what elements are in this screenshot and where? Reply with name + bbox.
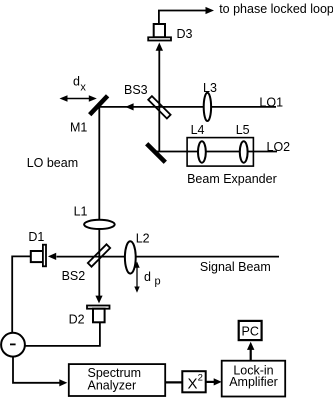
wire spectrum analyzer to squarer	[165, 381, 182, 383]
beam LO1 (right of BS3)	[159, 106, 276, 108]
subtractor node (-)	[1, 333, 25, 357]
dp double arrow	[134, 262, 139, 293]
detector D3	[148, 24, 171, 41]
wire subtractor to spectrum analyzer	[13, 357, 60, 383]
svg-text:M1: M1	[70, 121, 87, 135]
wire D1 to subtractor	[12, 256, 31, 332]
wire lock-in amplifier to PC	[250, 349, 252, 361]
svg-text:x: x	[80, 81, 86, 93]
arrowhead toward M1	[125, 103, 133, 110]
mirror M2 (unlabeled, LO2 fold mirror)	[147, 144, 166, 163]
spectrum analyzer box	[69, 364, 165, 396]
svg-text:d: d	[73, 75, 80, 89]
svg-text:Signal Beam: Signal Beam	[200, 260, 271, 274]
arrowhead into D3	[156, 43, 163, 51]
dx double arrow	[60, 95, 97, 102]
arrowhead into lock-in amplifier	[214, 378, 222, 385]
beam LO2	[156, 151, 277, 153]
lens L2	[125, 241, 136, 273]
beam BS3 to D3 (vertical) and BS3 down to mirror	[158, 50, 160, 152]
svg-text:L1: L1	[74, 205, 88, 219]
beam BS3 to M1	[100, 106, 160, 108]
mirror M1	[90, 96, 108, 115]
detector D1	[31, 245, 46, 267]
arrowhead into D1	[48, 253, 56, 260]
PC box	[239, 321, 262, 340]
lens L1	[84, 220, 115, 229]
svg-text:L4: L4	[191, 123, 205, 137]
svg-text:LO1: LO1	[259, 96, 283, 110]
svg-text:p: p	[155, 276, 161, 288]
svg-text:BS2: BS2	[62, 269, 86, 283]
lens L4	[198, 141, 206, 162]
beam splitter BS2	[88, 244, 110, 266]
lens L5	[240, 141, 248, 162]
svg-text:L2: L2	[136, 232, 150, 246]
detector D2	[87, 306, 110, 323]
svg-text:L3: L3	[203, 81, 217, 95]
arrowhead into PC	[247, 342, 254, 350]
svg-text:X: X	[188, 375, 198, 392]
wire to phase locked loop	[159, 11, 207, 25]
wire D2 to subtractor	[25, 322, 100, 346]
beam expander box	[187, 138, 253, 167]
svg-text:2: 2	[198, 373, 203, 384]
lens L3	[204, 93, 211, 121]
svg-text:L5: L5	[236, 123, 250, 137]
svg-text:Analyzer: Analyzer	[88, 378, 137, 392]
minus sign	[10, 343, 16, 345]
LO beam vertical (M1 down through L1, BS2 to D2)	[98, 107, 100, 297]
svg-text:Amplifier: Amplifier	[229, 375, 278, 389]
arrowhead into D2	[95, 296, 102, 304]
svg-text:to phase locked loop: to phase locked loop	[219, 2, 333, 16]
arrowhead into spectrum analyzer	[59, 379, 67, 386]
squarer box X^2	[182, 371, 205, 392]
svg-text:D1: D1	[28, 230, 44, 244]
svg-text:LO2: LO2	[267, 140, 291, 154]
lock-in amplifier box	[222, 361, 286, 397]
signal beam horizontal	[57, 256, 280, 258]
svg-text:d: d	[144, 270, 151, 284]
svg-text:Beam Expander: Beam Expander	[187, 172, 277, 186]
svg-text:BS3: BS3	[124, 83, 148, 97]
svg-text:D3: D3	[177, 27, 193, 41]
beam splitter BS3	[148, 96, 170, 118]
svg-text:PC: PC	[242, 324, 259, 338]
svg-text:D2: D2	[69, 313, 85, 327]
wire squarer to lock-in amplifier	[206, 381, 215, 383]
arrowhead to phase locked loop	[206, 7, 215, 14]
svg-text:LO beam: LO beam	[27, 156, 78, 170]
